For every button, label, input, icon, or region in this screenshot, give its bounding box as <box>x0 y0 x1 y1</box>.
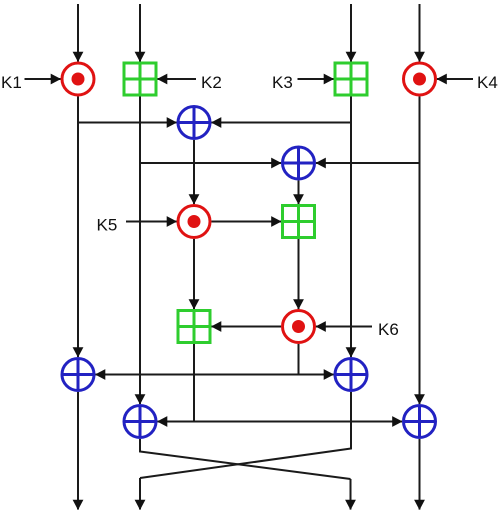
svg-text:K1: K1 <box>1 73 22 92</box>
svg-text:K2: K2 <box>201 73 222 92</box>
svg-text:K3: K3 <box>272 73 293 92</box>
svg-text:K6: K6 <box>378 320 399 339</box>
svg-text:K5: K5 <box>97 216 118 235</box>
svg-text:K4: K4 <box>477 73 498 92</box>
